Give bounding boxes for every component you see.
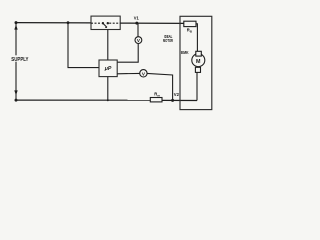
node supply positive terminal xyxy=(15,21,18,24)
wire voltmeter 2 to node V2 xyxy=(147,73,173,100)
label SUPPLY xyxy=(11,55,30,61)
wire voltmeter 1 to uP xyxy=(117,44,138,63)
svg-text:MOTOR: MOTOR xyxy=(163,38,174,43)
svg-text:EMK: EMK xyxy=(181,50,189,55)
wire uP to voltmeter 2 xyxy=(117,72,140,74)
resistor Rm xyxy=(150,98,162,102)
voltmeter V1 body xyxy=(135,37,142,44)
supply arrowhead down xyxy=(14,90,17,95)
wire top rail right segment xyxy=(120,22,184,24)
svg-text:RB: RB xyxy=(187,28,193,34)
motor brush terminal bottom xyxy=(195,67,200,72)
motor model enclosure box xyxy=(180,16,212,109)
switch contact right xyxy=(107,22,109,24)
supply arrowhead up xyxy=(14,25,17,30)
node V2 xyxy=(171,99,174,102)
wire bottom rail left of Rm xyxy=(16,99,150,101)
switch S1 enclosure box xyxy=(91,16,120,29)
switch contact left xyxy=(102,22,104,24)
svg-text:μP: μP xyxy=(104,66,112,72)
motor M body xyxy=(192,54,205,67)
wire node A down to uP input xyxy=(68,23,99,68)
switch blade xyxy=(103,24,107,28)
switch dashed lead left xyxy=(91,22,102,24)
svg-text:V1: V1 xyxy=(134,16,139,21)
wire uP to bottom rail xyxy=(107,77,109,101)
node V1 xyxy=(135,22,138,25)
wire switch to uP xyxy=(107,30,109,61)
wire motor return xyxy=(196,72,198,101)
motor brush terminal top xyxy=(196,51,202,56)
svg-text:Rm: Rm xyxy=(154,92,160,98)
node uP bottom junction xyxy=(107,99,109,101)
wire bottom rail right of Rm xyxy=(162,99,197,101)
resistor RB xyxy=(184,21,196,26)
svg-text:V2: V2 xyxy=(174,92,180,97)
svg-text:SUPPLY: SUPPLY xyxy=(11,57,29,63)
voltmeter V2 body xyxy=(140,70,147,77)
supply source vertical wire xyxy=(15,23,17,101)
node A junction top rail xyxy=(67,21,70,24)
wire RB to motor brush xyxy=(196,24,197,51)
switch blade tip tick xyxy=(105,26,107,28)
wire V1 node to voltmeter 1 xyxy=(137,23,139,37)
switch dashed lead right xyxy=(109,22,120,24)
node supply negative terminal xyxy=(15,99,18,102)
microprocessor U1 box xyxy=(99,60,117,77)
svg-text:M: M xyxy=(196,59,201,65)
wire top rail left segment xyxy=(16,22,92,24)
